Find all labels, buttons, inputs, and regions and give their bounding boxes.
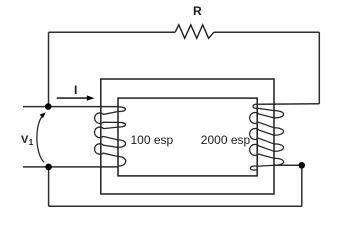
voltage arrow arc [37, 114, 44, 162]
wire: secondary winding bottom tap [274, 164, 302, 166]
transformer core: outer rectangle [101, 79, 274, 194]
wire: bottom-left vertical [48, 167, 50, 206]
svg-text:R: R [193, 4, 202, 18]
wire: bottom horizontal return [49, 205, 302, 207]
wire: bottom-right vertical [301, 165, 303, 206]
wire: entry to secondary winding top [258, 103, 319, 105]
wire: left vertical of top loop [48, 32, 50, 106]
svg-text:1: 1 [29, 138, 34, 147]
current arrow shaft [57, 97, 88, 99]
node: bottom-left junction [45, 164, 52, 171]
resistor R [175, 25, 214, 39]
wire: top horizontal, right of resistor [214, 31, 319, 33]
wire: right vertical drop [318, 32, 320, 104]
transformer core: inner rectangle [118, 98, 257, 176]
node: bottom-right junction [299, 162, 306, 169]
svg-text:100 esp: 100 esp [131, 133, 174, 147]
svg-text:2000 esp: 2000 esp [201, 133, 251, 147]
voltage arrow head [40, 112, 46, 118]
current arrow head [87, 95, 95, 100]
svg-text:V: V [21, 134, 29, 146]
wire: top-left terminal [23, 106, 118, 108]
node: top-left junction [45, 103, 52, 110]
secondary winding coil (2000 esp) [250, 104, 284, 170]
wire: top horizontal, left of resistor [49, 31, 176, 33]
primary winding coil (100 esp) [95, 107, 126, 166]
svg-text:I: I [74, 83, 77, 97]
wire: bottom-left terminal [23, 166, 118, 168]
